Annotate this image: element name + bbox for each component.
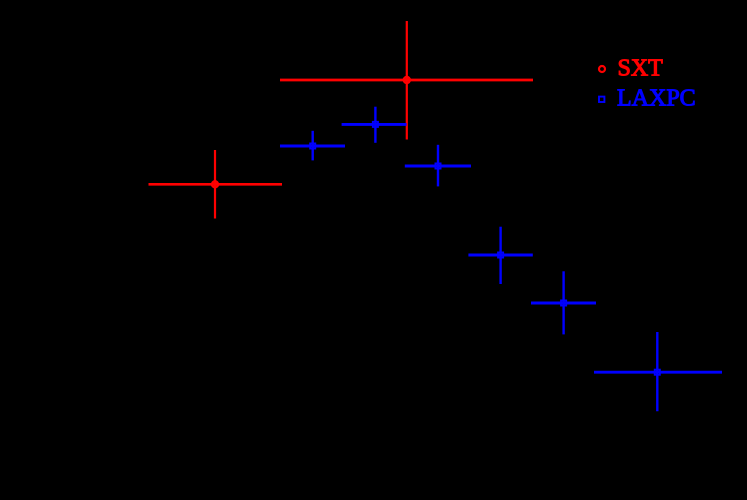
SXT data point 1 (red, lower-left): [149, 150, 283, 219]
legend marker SXT (red open circle): [599, 66, 605, 72]
SXT data point 2 (red, top): [280, 21, 533, 140]
svg-text:LAXPC: LAXPC: [617, 85, 696, 111]
legend marker LAXPC (blue open square): [599, 97, 604, 102]
LAXPC data point 5: [531, 271, 596, 334]
LAXPC data point 2: [342, 107, 407, 143]
LAXPC data point 4: [468, 227, 532, 284]
LAXPC data point 3: [405, 145, 471, 187]
svg-text:SXT: SXT: [618, 56, 664, 82]
LAXPC data point 1: [280, 131, 345, 161]
LAXPC data point 6: [594, 332, 722, 411]
